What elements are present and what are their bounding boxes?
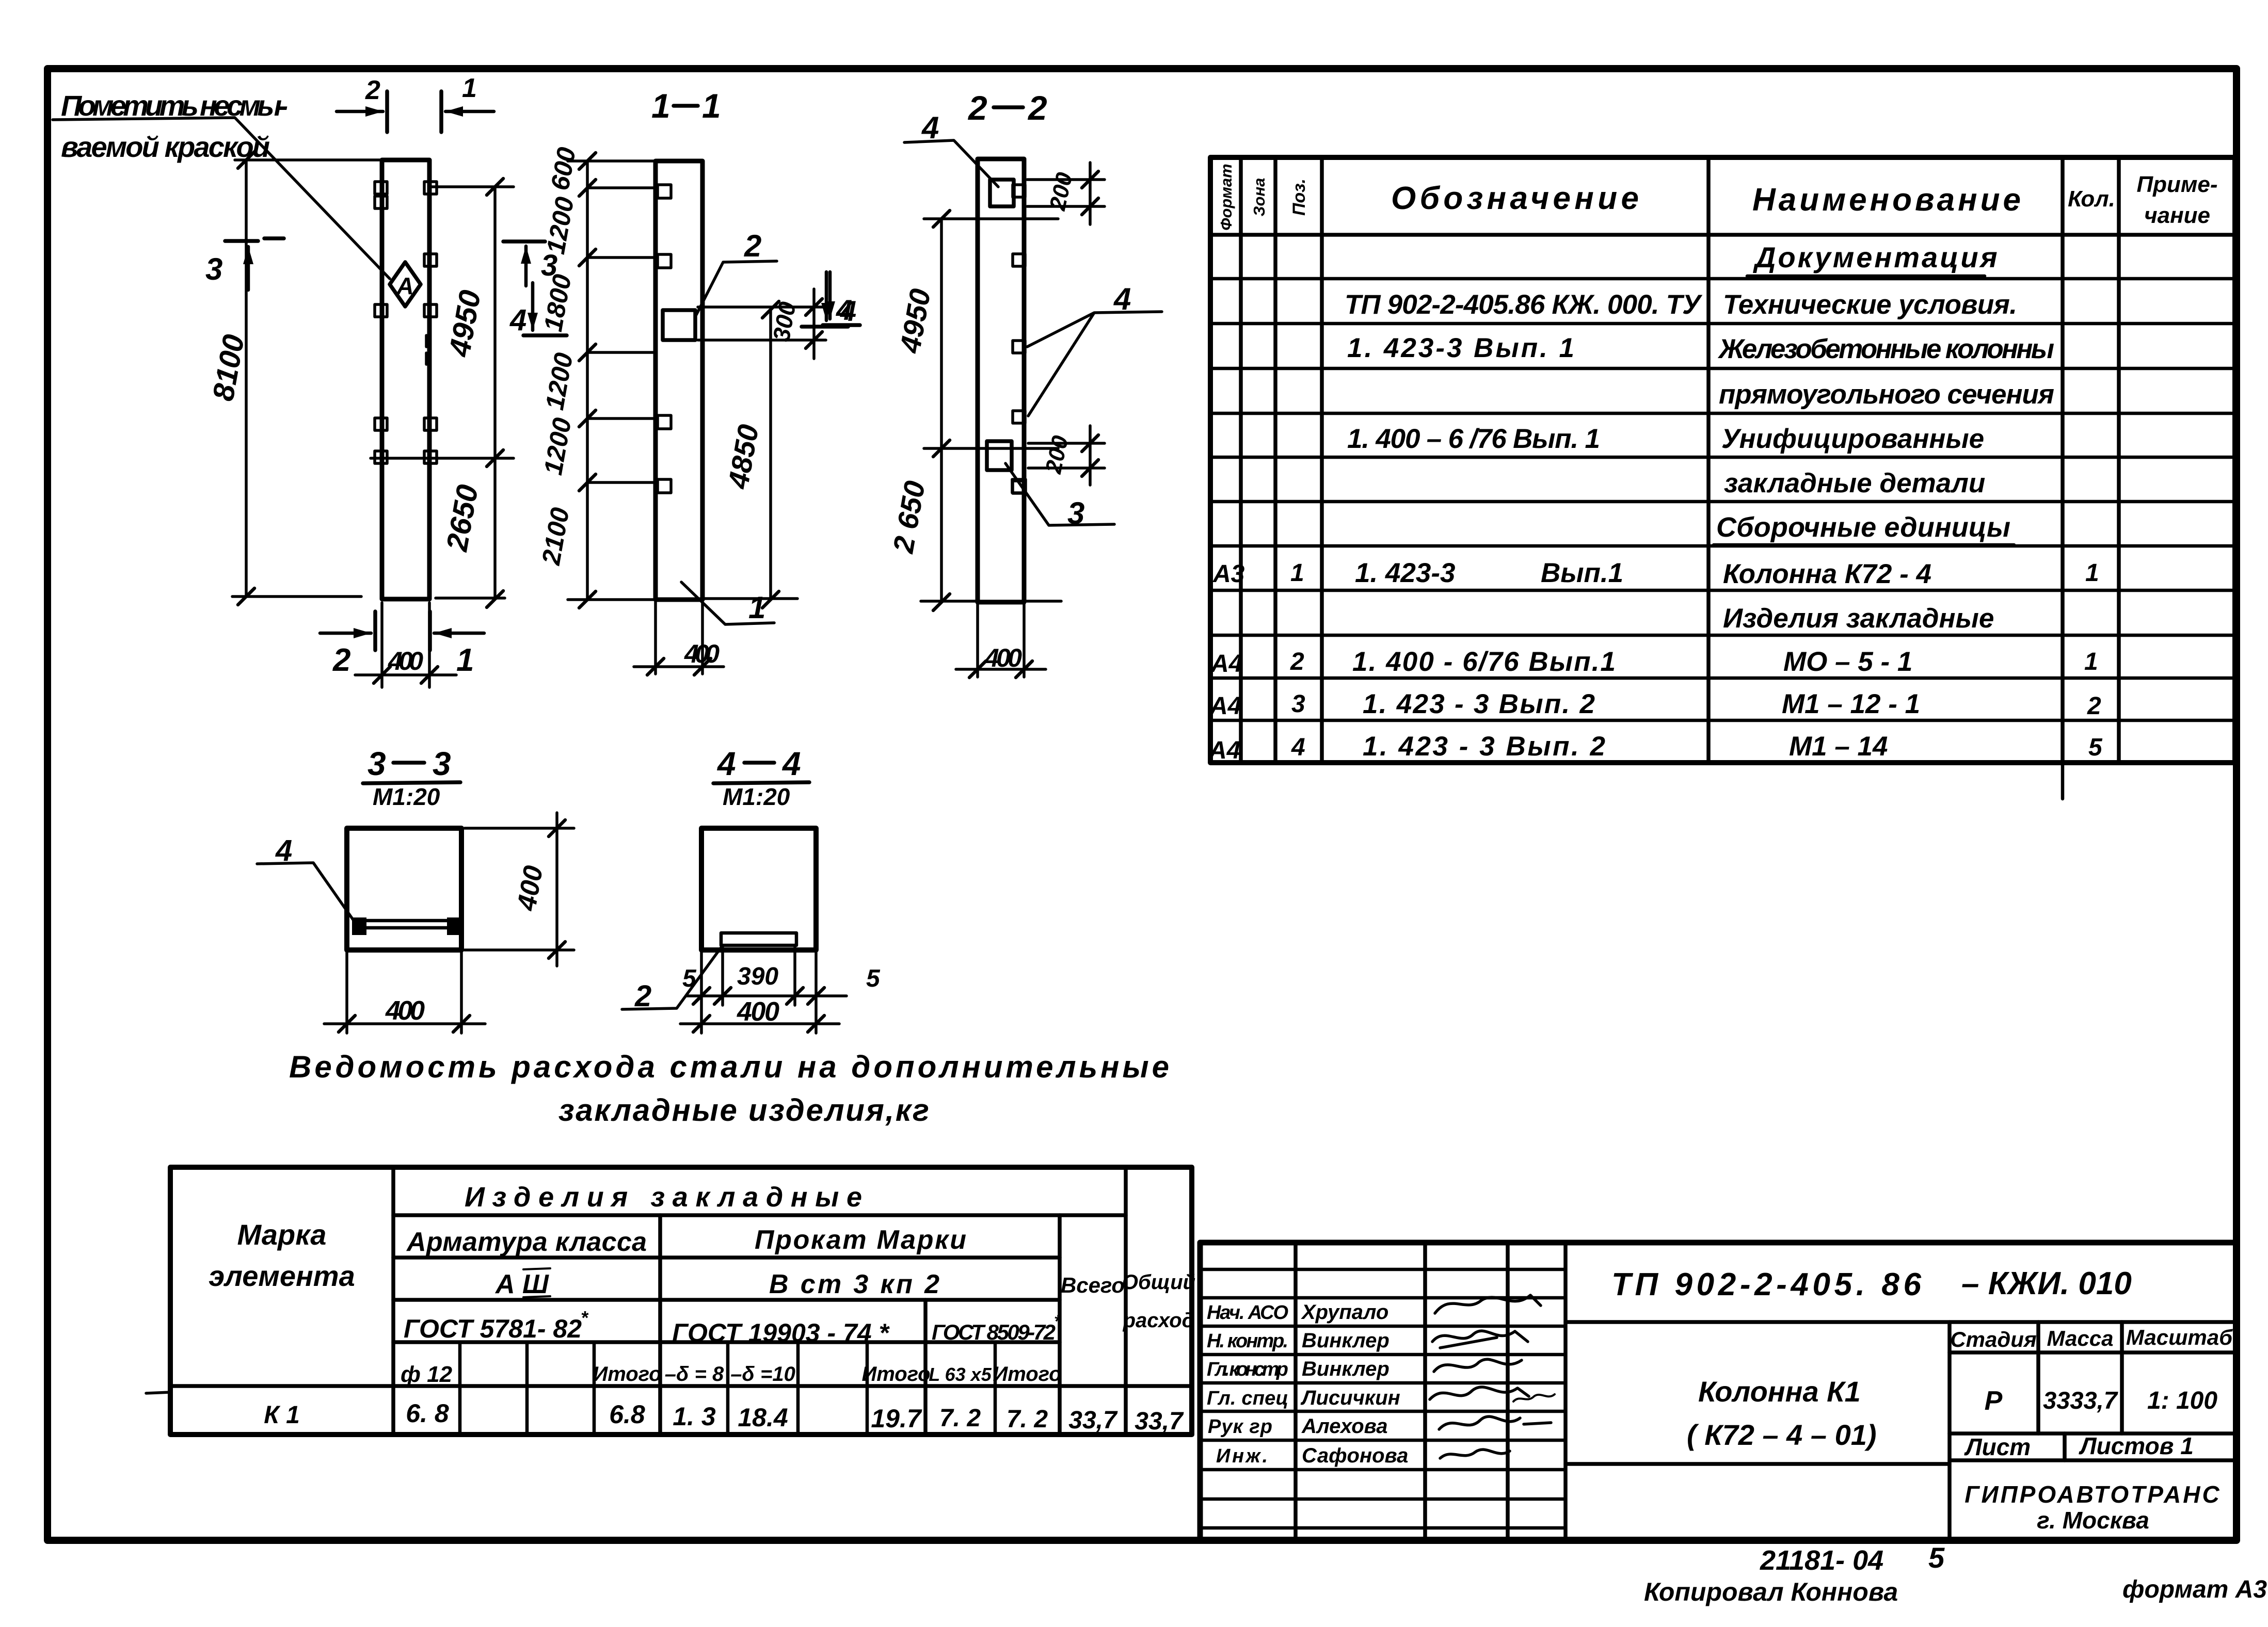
svg-text:Р: Р <box>1985 1386 2003 1416</box>
svg-text:Листов 1: Листов 1 <box>2079 1432 2194 1459</box>
svg-text:Формат: Формат <box>1217 164 1235 230</box>
svg-text:Прокат Марки: Прокат Марки <box>755 1225 966 1255</box>
svg-text:21181- 04: 21181- 04 <box>1760 1545 1883 1576</box>
svg-text:1. 423-3: 1. 423-3 <box>1355 558 1455 588</box>
svg-text:ГОСТ 5781- 82: ГОСТ 5781- 82 <box>404 1314 582 1343</box>
svg-text:ТП 902-2-405.86 КЖ. 000. ТУ: ТП 902-2-405.86 КЖ. 000. ТУ <box>1345 289 1703 320</box>
svg-text:1. 423-3 Вып. 1: 1. 423-3 Вып. 1 <box>1347 333 1574 363</box>
svg-text:1: 1 <box>748 590 765 625</box>
svg-text:1: 1 <box>702 87 721 125</box>
svg-text:390: 390 <box>737 963 778 990</box>
svg-text:4: 4 <box>781 745 801 782</box>
svg-text:М1:20: М1:20 <box>373 783 440 810</box>
svg-text:Марка: Марка <box>237 1218 327 1251</box>
title area lines <box>1566 1320 2236 1324</box>
svg-text:Нач. АСО: Нач. АСО <box>1207 1302 1288 1324</box>
leader from note to mark A <box>53 118 390 279</box>
svg-text:ф 12: ф 12 <box>401 1362 453 1387</box>
svg-text:Лисичкин: Лисичкин <box>1300 1387 1400 1409</box>
dimension 200 (bottom right) <box>1028 443 1105 468</box>
svg-text:Сборочные единицы: Сборочные единицы <box>1716 512 2010 543</box>
svg-text:Алехова: Алехова <box>1301 1415 1388 1438</box>
svg-text:400: 400 <box>385 996 425 1026</box>
svg-text:3: 3 <box>433 745 451 782</box>
svg-text:1: 1 <box>2085 559 2099 587</box>
dimension 400 (bottom of 1-1) <box>656 602 702 674</box>
svg-text:ГОСТ 19903 - 74 *: ГОСТ 19903 - 74 * <box>672 1318 890 1347</box>
dimension 400 (bottom of 2-2) <box>978 604 1024 677</box>
svg-text:Н. контр.: Н. контр. <box>1207 1330 1288 1352</box>
svg-text:Колонна К72 - 4: Колонна К72 - 4 <box>1723 559 1931 589</box>
svg-text:3: 3 <box>1291 690 1305 718</box>
svg-text:ваемой краской: ваемой краской <box>61 131 270 163</box>
section 4-4 square outline <box>701 828 816 950</box>
svg-text:МО – 5 - 1: МО – 5 - 1 <box>1783 647 1912 677</box>
svg-text:3: 3 <box>368 745 386 782</box>
svg-text:Итого: Итого <box>861 1363 930 1386</box>
dimension 300 <box>698 307 826 340</box>
svg-text:1. 423 - 3 Вып. 2: 1. 423 - 3 Вып. 2 <box>1363 731 1605 762</box>
svg-text:1. 423 - 3 Вып. 2: 1. 423 - 3 Вып. 2 <box>1363 689 1595 719</box>
svg-text:Масса: Масса <box>2047 1326 2114 1350</box>
svg-text:4: 4 <box>840 295 856 327</box>
svg-text:А4: А4 <box>1209 692 1241 720</box>
SECTION 3-3 <box>257 745 574 1033</box>
svg-text:33,7: 33,7 <box>1135 1408 1184 1435</box>
svg-text:400: 400 <box>737 997 779 1027</box>
svg-text:Унифицированные: Унифицированные <box>1721 424 1984 454</box>
dimension 400 (bottom of view 1) <box>382 603 429 687</box>
svg-text:1. 3: 1. 3 <box>673 1402 716 1431</box>
svg-text:2: 2 <box>967 89 987 127</box>
svg-text:5: 5 <box>682 965 697 992</box>
svg-text:Стадия: Стадия <box>1950 1327 2036 1351</box>
svg-text:ГОСТ 8509-72: ГОСТ 8509-72 <box>932 1320 1056 1344</box>
svg-text:Зона: Зона <box>1250 178 1268 217</box>
column outline (section 1-1) <box>656 161 702 600</box>
svg-text:5: 5 <box>1928 1541 1945 1574</box>
column outline (section 2-2) <box>978 159 1024 602</box>
bottom embed plate pos.3 <box>987 441 1012 470</box>
svg-text:элемента: элемента <box>209 1260 355 1292</box>
svg-text:4: 4 <box>716 745 736 782</box>
svg-text:6.8: 6.8 <box>609 1400 645 1429</box>
svg-text:7. 2: 7. 2 <box>939 1405 981 1432</box>
svg-text:расход: расход <box>1123 1309 1195 1332</box>
svg-text:А3: А3 <box>1212 560 1245 588</box>
svg-text:2: 2 <box>744 229 761 263</box>
VIEW 1: column elevation <box>53 73 514 687</box>
svg-text:М1:20: М1:20 <box>723 783 790 810</box>
section mark 4 (left of 2-2) <box>828 272 832 319</box>
svg-text:1. 400 – 6 /76 Вып. 1: 1. 400 – 6 /76 Вып. 1 <box>1347 424 1600 454</box>
dimension 8100 (left) <box>245 160 248 597</box>
MATERIAL TABLE <box>146 1167 1195 1435</box>
embed plate pos.2 <box>663 310 695 340</box>
dimension 400 (bottom of 3-3) <box>347 952 461 1033</box>
svg-text:Винклер: Винклер <box>1302 1329 1389 1352</box>
svg-text:1: 1 <box>2084 648 2098 675</box>
svg-text:6. 8: 6. 8 <box>406 1399 449 1428</box>
svg-text:Винклер: Винклер <box>1302 1358 1389 1380</box>
svg-text:Масштаб: Масштаб <box>2126 1325 2233 1349</box>
section mark 4 (right of 1-1) <box>825 272 828 320</box>
svg-text:Изделия закладные: Изделия закладные <box>1723 603 1994 634</box>
svg-text:*: * <box>1054 1312 1062 1331</box>
svg-text:Поз.: Поз. <box>1289 179 1309 216</box>
dimension 4850 <box>769 310 772 600</box>
svg-text:Сафонова: Сафонова <box>1302 1444 1408 1467</box>
svg-text:400: 400 <box>984 643 1022 672</box>
svg-text:А Ш: А Ш <box>494 1269 549 1299</box>
svg-text:М1 – 14: М1 – 14 <box>1789 731 1888 762</box>
embed squares on left face <box>658 185 671 198</box>
svg-text:Гл. спец: Гл. спец <box>1207 1388 1288 1409</box>
svg-text:4: 4 <box>509 303 526 337</box>
svg-text:400: 400 <box>684 639 720 668</box>
top embed plate pos.4 <box>990 180 1014 206</box>
svg-text:К 1: К 1 <box>264 1402 300 1429</box>
dimension 4950 / 2650 (left of 2-2) <box>940 219 943 602</box>
svg-text:формат А3: формат А3 <box>2122 1576 2267 1603</box>
column K1 outline (view 1) <box>382 160 429 599</box>
svg-text:Технические условия.: Технические условия. <box>1723 289 2017 320</box>
dimension 200 (top right) <box>1027 180 1105 206</box>
svg-text:прямоугольного сечения: прямоугольного сечения <box>1719 379 2054 410</box>
dimension 4950 / 2650 (right of view 1) <box>493 187 497 599</box>
dimensions 5 / 390 / 5 <box>723 947 795 1005</box>
svg-text:Гл. констр: Гл. констр <box>1207 1359 1288 1380</box>
svg-text:2: 2 <box>332 642 350 678</box>
svg-text:Ведомость расхода стали на: Ведомость расхода стали на дополнительны… <box>289 1050 1169 1084</box>
svg-text:Железобетонные колонны: Железобетонные колонны <box>1717 334 2054 364</box>
svg-text:5: 5 <box>866 965 881 992</box>
svg-text:2: 2 <box>365 75 380 105</box>
embed plate marks on column edges (view 1) <box>375 182 387 194</box>
svg-text:Наименование: Наименование <box>1752 182 2021 218</box>
svg-text:Приме-: Приме- <box>2136 172 2217 197</box>
svg-text:Копировал Коннова: Копировал Коннова <box>1644 1577 1898 1606</box>
svg-text:Арматура класса: Арматура класса <box>406 1227 647 1257</box>
svg-text:1: 1 <box>456 642 474 678</box>
svg-text:Инж.: Инж. <box>1216 1445 1268 1467</box>
svg-text:закладные детали: закладные детали <box>1724 468 1985 498</box>
svg-text:2: 2 <box>2087 692 2101 720</box>
svg-text:1: 100: 1: 100 <box>2147 1387 2217 1414</box>
svg-text:33,7: 33,7 <box>1068 1407 1118 1434</box>
chain dimension line (600/1200/1800/1200/1200/2100) <box>586 161 589 600</box>
SECTION 4-4 <box>622 745 881 1033</box>
svg-text:19.7: 19.7 <box>871 1404 922 1433</box>
svg-text:1: 1 <box>1290 559 1304 587</box>
svg-text:2: 2 <box>1290 648 1304 675</box>
section mark 4 (arrow down) <box>531 283 535 330</box>
svg-text:чание: чание <box>2144 203 2210 228</box>
signature table rows <box>1200 1268 1566 1271</box>
svg-text:г. Москва: г. Москва <box>2037 1507 2149 1534</box>
title block outline <box>1200 1243 2236 1540</box>
material table grid <box>170 1167 1192 1435</box>
svg-text:*: * <box>581 1307 589 1328</box>
svg-text:Всего: Всего <box>1061 1273 1125 1297</box>
svg-text:400: 400 <box>388 647 423 675</box>
svg-text:Хрупало: Хрупало <box>1301 1301 1388 1324</box>
svg-text:А4: А4 <box>1210 650 1242 678</box>
svg-text:5: 5 <box>2088 734 2103 761</box>
svg-text:Колонна К1: Колонна К1 <box>1698 1375 1861 1408</box>
svg-text:1: 1 <box>651 87 670 125</box>
svg-text:ТП 902-2-405. 86: ТП 902-2-405. 86 <box>1611 1267 1922 1302</box>
svg-text:– КЖИ. 010: – КЖИ. 010 <box>1961 1266 2132 1301</box>
svg-text:–δ =10: –δ =10 <box>730 1363 795 1386</box>
svg-text:( К72 – 4 – 01): ( К72 – 4 – 01) <box>1687 1419 1877 1451</box>
svg-text:Рук гр: Рук гр <box>1208 1416 1272 1438</box>
svg-text:Итого: Итого <box>593 1363 661 1386</box>
dimension 400 (bottom of 4-4) <box>701 952 816 1033</box>
svg-text:2: 2 <box>1027 89 1047 127</box>
svg-text:Изделия закладные: Изделия закладные <box>465 1182 862 1213</box>
embed squares on right face <box>1013 254 1025 266</box>
mark A diamond <box>390 262 421 307</box>
svg-text:3: 3 <box>205 252 222 286</box>
svg-text:А: А <box>396 272 413 299</box>
label 1 with leader <box>681 582 774 624</box>
svg-text:А4: А4 <box>1208 737 1240 764</box>
svg-text:ГИПРОАВТОТРАНС: ГИПРОАВТОТРАНС <box>1964 1481 2221 1508</box>
svg-text:Пометить несмы-: Пометить несмы- <box>61 89 288 122</box>
section 3-3 square outline <box>347 828 461 950</box>
embedded plate pos.2 <box>721 933 796 945</box>
svg-text:Документация: Документация <box>1753 241 2000 273</box>
VIEW 2: section 1-1 <box>536 87 852 675</box>
signatures (squiggles) <box>1435 1295 1541 1313</box>
svg-text:4: 4 <box>1291 734 1305 761</box>
svg-text:18.4: 18.4 <box>738 1403 788 1432</box>
svg-text:М1 – 12 - 1: М1 – 12 - 1 <box>1782 689 1920 719</box>
specification table grid <box>1210 157 2235 763</box>
SPEC TABLE <box>1208 157 2235 799</box>
svg-text:7. 2: 7. 2 <box>1007 1406 1048 1433</box>
embedded plate with anchors <box>358 921 457 928</box>
svg-text:L 63 х5: L 63 х5 <box>929 1364 992 1385</box>
section mark 3 (arrow up) <box>503 239 545 244</box>
svg-text:3333,7: 3333,7 <box>2043 1387 2118 1414</box>
svg-text:Обозначение: Обозначение <box>1391 181 1639 216</box>
svg-text:–δ = 8: –δ = 8 <box>665 1363 724 1386</box>
svg-text:Общий: Общий <box>1122 1271 1195 1294</box>
svg-text:Лист: Лист <box>1964 1433 2031 1460</box>
svg-text:1. 400 - 6/76 Вып.1: 1. 400 - 6/76 Вып.1 <box>1352 647 1616 677</box>
VIEW 3: section 2-2 <box>823 89 1162 678</box>
svg-text:Вып.1: Вып.1 <box>1541 558 1623 588</box>
TITLE BLOCK <box>1200 1243 2236 1540</box>
svg-text:1: 1 <box>462 73 477 103</box>
svg-text:Кол.: Кол. <box>2068 186 2115 212</box>
svg-text:Итого: Итого <box>993 1363 1061 1386</box>
signature table verticals <box>1293 1243 1298 1540</box>
dimension 400 (right of 3-3) <box>465 828 574 950</box>
svg-text:закладные изделия,кг: закладные изделия,кг <box>558 1093 929 1127</box>
